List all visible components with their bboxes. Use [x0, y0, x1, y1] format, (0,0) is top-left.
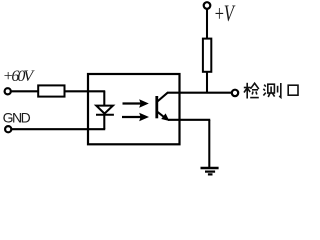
- svg-text:GND: GND: [3, 109, 31, 125]
- svg-text:+60V: +60V: [3, 68, 36, 85]
- svg-text:+V: +V: [214, 1, 236, 26]
